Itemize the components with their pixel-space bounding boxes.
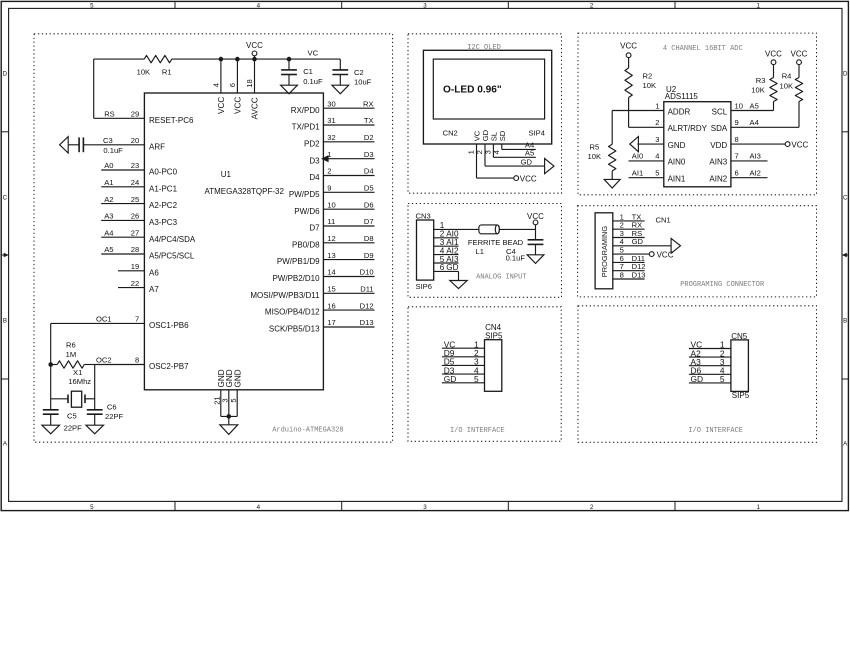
U2 pin 2 ALRT/RDY — [655, 118, 707, 133]
svg-text:AIN1: AIN1 — [668, 175, 686, 184]
svg-text:A4/PC4/SDA: A4/PC4/SDA — [149, 235, 196, 244]
VCC symbol above R4 — [791, 50, 808, 65]
svg-text:D6: D6 — [364, 200, 374, 209]
U1 pin 10 PW/D6 — [294, 200, 374, 215]
svg-text:OC2: OC2 — [96, 356, 112, 365]
svg-text:ADS1115: ADS1115 — [665, 92, 699, 101]
CN3 pin 1 — [434, 221, 479, 230]
svg-text:0.1uF: 0.1uF — [506, 253, 526, 262]
svg-text:PD2: PD2 — [304, 139, 320, 148]
svg-text:O-LED 0.96": O-LED 0.96" — [443, 85, 502, 96]
CN4 pin 2 D9 — [442, 348, 485, 358]
U1 pin 25 A2-PC2 — [101, 195, 177, 210]
svg-text:1M: 1M — [66, 350, 77, 359]
ground below C2 — [332, 85, 349, 94]
U1 pin 13 PW/PB1/D9 — [277, 251, 375, 266]
svg-text:Arduino-ATMEGA328: Arduino-ATMEGA328 — [272, 426, 343, 434]
wire R2 to U2 ALRT/RDY — [629, 98, 664, 128]
svg-text:PROGRAMING CONNECTOR: PROGRAMING CONNECTOR — [680, 281, 765, 289]
wire node AI2 — [731, 169, 768, 178]
svg-text:PW/PB1/D9: PW/PB1/D9 — [277, 257, 320, 266]
svg-text:OSC2-PB7: OSC2-PB7 — [149, 362, 189, 371]
connector CN4 SIP5 body — [485, 323, 503, 392]
wire pin stubs VCC — [221, 56, 255, 93]
svg-text:VCC: VCC — [765, 50, 782, 59]
svg-text:24: 24 — [131, 178, 139, 187]
wire L1 to VCC/C4 — [500, 225, 536, 240]
svg-text:R3: R3 — [756, 76, 766, 85]
svg-text:2: 2 — [655, 118, 659, 127]
svg-text:RS: RS — [104, 110, 115, 119]
svg-text:C2: C2 — [354, 68, 364, 77]
svg-text:ATMEGA328TQPF-32: ATMEGA328TQPF-32 — [205, 187, 285, 196]
U2 pin 8 VDD — [710, 135, 738, 150]
ground below C6 — [86, 425, 104, 434]
svg-text:4: 4 — [211, 83, 220, 87]
svg-text:MOSI/PW/PB3/D11: MOSI/PW/PB3/D11 — [250, 291, 320, 300]
resistor R5 10K — [588, 143, 616, 180]
OLED display CN2 body — [423, 50, 551, 144]
svg-text:C6: C6 — [107, 403, 117, 412]
svg-text:A2-PC2: A2-PC2 — [149, 201, 178, 210]
svg-text:TX: TX — [364, 116, 374, 125]
U2 pin 5 AIN1 — [655, 169, 686, 184]
svg-text:A4: A4 — [104, 228, 113, 237]
svg-text:VC: VC — [308, 48, 319, 57]
svg-text:ANALOG INPUT: ANALOG INPUT — [476, 274, 526, 282]
svg-text:10: 10 — [735, 101, 743, 110]
svg-text:D4: D4 — [364, 167, 374, 176]
ground right of CN1 pin4 — [671, 238, 680, 253]
svg-text:U1: U1 — [221, 170, 232, 179]
svg-text:8: 8 — [135, 356, 139, 365]
svg-text:R4: R4 — [782, 72, 792, 81]
CN3 pin 2 — [434, 230, 459, 239]
U1 pin 23 A0-PC0 — [101, 161, 177, 176]
svg-text:I/O INTERFACE: I/O INTERFACE — [688, 427, 743, 435]
svg-text:SIP4: SIP4 — [529, 128, 545, 137]
svg-text:VCC: VCC — [791, 140, 808, 149]
svg-text:3: 3 — [423, 504, 427, 511]
wire U2 ADDR to R5 — [612, 111, 664, 145]
svg-text:VCC: VCC — [246, 41, 263, 50]
ground below C4 — [527, 255, 544, 264]
svg-text:28: 28 — [131, 245, 139, 254]
ground right of CN2 pin2 — [545, 159, 554, 174]
capacitor C5 22PF — [43, 410, 82, 433]
svg-text:D11: D11 — [360, 285, 373, 294]
wire CN2 pin1 to VCC — [477, 144, 515, 178]
svg-text:I/O INTERFACE: I/O INTERFACE — [450, 427, 505, 435]
svg-text:16: 16 — [327, 301, 335, 310]
wire node AI3 — [731, 152, 768, 161]
analog input section box — [408, 204, 562, 298]
U1 pin 16 MISO/PB4/D12 — [265, 301, 375, 316]
svg-text:R1: R1 — [162, 68, 172, 77]
svg-text:16Mhz: 16Mhz — [68, 377, 91, 386]
svg-text:AVCC: AVCC — [251, 97, 260, 119]
svg-text:RESET-PC6: RESET-PC6 — [149, 116, 194, 125]
svg-text:CN1: CN1 — [656, 216, 671, 225]
svg-text:3: 3 — [423, 3, 427, 10]
resistor R2 10K — [625, 57, 656, 97]
capacitor C6 22PF — [87, 403, 124, 426]
svg-text:GD: GD — [444, 374, 457, 384]
ground left of U2 pin 3 — [630, 137, 639, 152]
U1 pin 29 RESET-PC6 — [94, 110, 194, 125]
U2 pin 3 GND — [655, 135, 685, 150]
svg-text:VCC: VCC — [620, 41, 637, 50]
svg-text:D7: D7 — [364, 217, 374, 226]
U2 pin 7 AIN3 — [709, 152, 738, 167]
svg-text:4: 4 — [257, 504, 261, 511]
svg-text:1: 1 — [756, 504, 760, 511]
svg-text:22PF: 22PF — [64, 424, 83, 433]
svg-text:C: C — [843, 194, 848, 201]
VCC symbol at U2 VDD — [785, 140, 808, 149]
U1 pin 11 D7 — [309, 217, 374, 232]
wire SDA to R4 node A4 — [731, 118, 799, 127]
CN3 pin 5 — [434, 255, 459, 264]
CN5 pin 1 VC — [689, 340, 731, 350]
svg-text:VCC: VCC — [527, 212, 544, 221]
svg-text:19: 19 — [131, 262, 139, 271]
U1 pin 24 A1-PC1 — [101, 178, 177, 193]
svg-text:SIP5: SIP5 — [732, 391, 750, 400]
connector CN3 SIP6 body — [416, 212, 434, 291]
svg-text:GND: GND — [233, 369, 242, 387]
svg-text:5: 5 — [90, 3, 94, 10]
U1 pin 7 OSC1-PB6 — [51, 315, 189, 330]
wire CN2 pin3 to node A5 — [493, 144, 535, 158]
svg-text:20: 20 — [131, 136, 139, 145]
svg-text:AIN3: AIN3 — [709, 158, 727, 167]
svg-text:GND: GND — [668, 141, 686, 150]
svg-text:3: 3 — [655, 135, 659, 144]
U2 pin 3 GND wire — [637, 143, 663, 145]
svg-text:A0: A0 — [104, 161, 113, 170]
connector CN1 body — [595, 213, 671, 289]
svg-text:10: 10 — [327, 200, 335, 209]
wire VCC rail — [94, 59, 341, 118]
CN4 pin 1 VC — [442, 339, 485, 349]
CN2 pin numbers 1 2 3 4 — [467, 150, 501, 154]
svg-text:10K: 10K — [588, 152, 602, 161]
svg-text:0.1uF: 0.1uF — [103, 146, 123, 155]
svg-text:PB0/D8: PB0/D8 — [292, 240, 320, 249]
svg-text:5: 5 — [90, 504, 94, 511]
svg-text:GD: GD — [521, 157, 533, 166]
svg-text:D: D — [843, 70, 848, 77]
CN5 pin 5 GD — [689, 374, 731, 384]
svg-text:23: 23 — [131, 161, 139, 170]
svg-text:8: 8 — [735, 135, 739, 144]
svg-text:R5: R5 — [590, 143, 600, 152]
svg-text:6: 6 — [228, 83, 237, 87]
U2 pin 6 AIN2 — [709, 169, 738, 184]
VCC power symbol — [246, 41, 263, 56]
svg-text:7: 7 — [735, 152, 739, 161]
wire SCL to R3 node A5 — [731, 101, 774, 110]
U2 pin 1 ADDR — [655, 101, 690, 116]
I/O interface section box CN5 — [578, 306, 817, 443]
svg-text:A7: A7 — [149, 285, 159, 294]
svg-text:VCC: VCC — [657, 250, 674, 259]
svg-text:2: 2 — [327, 167, 331, 176]
U1 GND pins 21 3 5 — [213, 369, 243, 416]
svg-text:D5: D5 — [364, 184, 374, 193]
U1 pin 2 D4 — [309, 167, 374, 182]
CN1 pin 1 — [613, 212, 645, 221]
U1 pin 15 MOSI/PW/PB3/D11 — [250, 285, 374, 300]
svg-text:27: 27 — [131, 228, 139, 237]
wire CN2 pin2 to ground — [485, 144, 545, 166]
svg-text:0.1uF: 0.1uF — [303, 77, 323, 86]
VCC symbol above R2 — [620, 41, 637, 57]
wire CN2 pin4 to node A4 — [502, 141, 536, 150]
svg-text:9: 9 — [327, 184, 331, 193]
junction dots on VCC rail — [219, 57, 292, 62]
svg-text:PROGRAMING: PROGRAMING — [600, 226, 609, 278]
resistor R1 10K — [137, 55, 172, 76]
svg-text:CN5: CN5 — [731, 332, 748, 341]
U2 pin 10 SCL — [712, 101, 743, 116]
programming connector section box — [578, 206, 817, 297]
wire node AI1 — [629, 169, 664, 178]
U1 pin 28 A5/PC5/SCL — [101, 245, 195, 260]
wire CN3 pin6 to ground — [458, 271, 460, 280]
svg-text:1: 1 — [756, 3, 760, 10]
svg-text:R2: R2 — [643, 71, 653, 80]
svg-text:10K: 10K — [751, 85, 765, 94]
CN1 pin 5 — [613, 246, 650, 255]
svg-text:A5: A5 — [525, 149, 534, 158]
CN5 pin 4 D6 — [689, 366, 731, 376]
svg-text:18: 18 — [245, 79, 254, 87]
VCC symbol above R3 — [765, 50, 782, 65]
svg-text:R6: R6 — [66, 341, 76, 350]
svg-text:AI0: AI0 — [632, 152, 643, 161]
svg-text:D8: D8 — [364, 234, 374, 243]
svg-text:31: 31 — [327, 116, 335, 125]
svg-text:D3: D3 — [309, 156, 320, 165]
capacitor C3 0.1uF on ARF — [68, 136, 123, 155]
svg-text:12: 12 — [327, 234, 335, 243]
crystal X1 16Mhz — [51, 368, 95, 407]
capacitor C1 0.1uF — [281, 59, 323, 86]
svg-text:A1-PC1: A1-PC1 — [149, 184, 178, 193]
svg-text:X1: X1 — [73, 368, 82, 377]
U1 pin 22 A7 — [118, 279, 159, 294]
U1 pin 17 SCK/PB5/D13 — [269, 318, 375, 333]
CN1 pin 4 — [613, 237, 671, 246]
U1 pin 1 D3 — [309, 150, 374, 165]
svg-text:SD: SD — [498, 130, 507, 141]
svg-text:PW/D6: PW/D6 — [294, 207, 320, 216]
svg-text:9: 9 — [735, 118, 739, 127]
svg-text:B: B — [3, 317, 7, 324]
svg-text:AI2: AI2 — [750, 169, 761, 178]
node VC — [308, 48, 319, 57]
svg-text:B: B — [843, 317, 847, 324]
CN3 pin 6 — [434, 263, 459, 272]
svg-text:SCK/PB5/D13: SCK/PB5/D13 — [269, 325, 320, 334]
svg-text:6: 6 — [440, 263, 445, 272]
I2C OLED section box — [408, 34, 562, 193]
CN1 pin 8 — [613, 270, 646, 279]
svg-text:D13: D13 — [632, 270, 646, 279]
svg-text:6: 6 — [735, 169, 739, 178]
ground below U1 — [220, 416, 238, 434]
U1 pin 14 PW/PB2/D10 — [272, 268, 374, 283]
svg-text:D: D — [3, 70, 8, 77]
U1 power pin labels VCC VCC AVCC — [217, 97, 260, 120]
svg-text:D9: D9 — [364, 251, 374, 260]
resistor R3 10K — [751, 64, 777, 110]
resistor R6 1M — [51, 341, 95, 369]
U1 pin 31 TX/PD1 — [292, 116, 375, 131]
svg-text:CN3: CN3 — [416, 212, 431, 221]
4 channel ADC section box — [578, 33, 817, 195]
svg-text:PW/PB2/D10: PW/PB2/D10 — [272, 274, 320, 283]
wire node AI0 — [629, 152, 664, 161]
svg-text:OC1: OC1 — [96, 315, 112, 324]
U2 pin 4 AIN0 — [655, 152, 686, 167]
wire VDD to VCC — [731, 143, 785, 145]
CN4 pin 3 D5 — [442, 357, 485, 367]
svg-text:D3: D3 — [364, 150, 374, 159]
svg-text:25: 25 — [131, 195, 139, 204]
junction dot OC1/R6 — [48, 362, 53, 367]
svg-text:4: 4 — [655, 152, 659, 161]
wire OC2 net — [94, 365, 96, 410]
svg-text:VCC: VCC — [791, 50, 808, 59]
svg-text:ARF: ARF — [149, 142, 165, 151]
CN3 pin 3 — [434, 238, 459, 247]
resistor R4 10K — [780, 64, 803, 127]
svg-text:C3: C3 — [103, 136, 113, 145]
U1 pin 20 ARF — [83, 136, 165, 151]
op-amp U2 ADS1115 body — [664, 85, 731, 187]
svg-text:AIN2: AIN2 — [709, 175, 727, 184]
svg-text:4 CHANNEL 16BIT ADC: 4 CHANNEL 16BIT ADC — [663, 45, 743, 53]
VCC symbol above C4 — [527, 212, 544, 225]
svg-text:29: 29 — [131, 110, 139, 119]
svg-text:RX/PD0: RX/PD0 — [291, 106, 320, 115]
capacitor C4 0.1uF — [506, 240, 544, 263]
svg-text:D12: D12 — [360, 301, 374, 310]
CN1 pin 2 — [613, 221, 645, 230]
U1 pin 12 PB0/D8 — [292, 234, 374, 249]
svg-text:L1: L1 — [475, 247, 483, 256]
svg-text:7: 7 — [135, 315, 139, 324]
junction dot GND — [227, 414, 232, 419]
svg-text:AI3: AI3 — [750, 152, 761, 161]
capacitor C2 10uF — [332, 59, 371, 86]
CN2 pin labels VC GD SL SD — [473, 129, 507, 141]
svg-text:2: 2 — [590, 3, 594, 10]
wire OC1 net — [50, 323, 52, 409]
svg-text:VCC: VCC — [520, 174, 537, 183]
ground left of C3 — [60, 137, 69, 153]
svg-text:8: 8 — [620, 270, 624, 279]
svg-text:I2C OLED: I2C OLED — [467, 44, 501, 52]
I/O interface section box CN4 — [408, 307, 561, 442]
svg-text:30: 30 — [327, 99, 335, 108]
svg-text:A5: A5 — [104, 245, 113, 254]
svg-text:SIP6: SIP6 — [416, 282, 432, 291]
CN5 pin 3 A3 — [689, 357, 731, 367]
svg-text:5: 5 — [655, 169, 659, 178]
svg-text:A6: A6 — [149, 268, 159, 277]
op-amp U1 ATMEGA328TQPF-32 body — [144, 93, 323, 390]
svg-text:A3: A3 — [104, 212, 113, 221]
U1 pin 9 PW/PD5 — [289, 184, 375, 199]
svg-text:SIP5: SIP5 — [485, 331, 503, 340]
svg-text:C5: C5 — [67, 412, 77, 421]
svg-text:A3-PC3: A3-PC3 — [149, 218, 178, 227]
U1 pin 19 A6 — [118, 262, 159, 277]
svg-text:GD: GD — [446, 263, 458, 272]
U1 pin 8 OSC2-PB7 — [95, 356, 189, 371]
svg-text:CN2: CN2 — [443, 128, 458, 137]
svg-text:10K: 10K — [643, 81, 657, 90]
svg-text:1: 1 — [655, 101, 659, 110]
svg-text:VCC: VCC — [217, 97, 226, 114]
svg-text:5: 5 — [720, 374, 725, 384]
svg-text:10uF: 10uF — [354, 77, 372, 86]
CN1 pin 3 — [613, 229, 645, 238]
svg-text:VDD: VDD — [710, 141, 727, 150]
svg-text:14: 14 — [327, 268, 335, 277]
CN5 pin 2 A2 — [689, 348, 731, 358]
svg-text:PW/PD5: PW/PD5 — [289, 190, 320, 199]
svg-text:A4: A4 — [750, 118, 759, 127]
svg-text:GD: GD — [691, 374, 704, 384]
U1 pin 32 PD2 — [304, 133, 374, 148]
svg-text:5: 5 — [474, 374, 479, 384]
svg-text:ALRT/RDY: ALRT/RDY — [668, 124, 708, 133]
svg-text:AI1: AI1 — [632, 169, 643, 178]
svg-text:15: 15 — [327, 285, 335, 294]
ground below R5 — [604, 179, 620, 188]
svg-text:SDA: SDA — [711, 124, 728, 133]
svg-text:17: 17 — [327, 318, 335, 327]
connector CN5 SIP5 body — [731, 332, 750, 400]
svg-text:2: 2 — [590, 504, 594, 511]
VCC symbol at CN1 pin5 — [649, 250, 673, 259]
svg-text:TX/PD1: TX/PD1 — [292, 123, 321, 132]
svg-text:10K: 10K — [780, 81, 794, 90]
svg-text:D7: D7 — [309, 224, 320, 233]
ground below C1 — [281, 85, 298, 94]
CN4 pin 5 GD — [442, 374, 485, 384]
U2 pin 9 SDA — [711, 118, 739, 133]
svg-text:10K: 10K — [137, 68, 151, 77]
U1 power pin numbers 4 6 18 — [211, 79, 254, 87]
ground below CN3 pin6 — [450, 281, 467, 289]
svg-text:C: C — [3, 194, 8, 201]
svg-text:RX: RX — [363, 99, 374, 108]
svg-text:5: 5 — [229, 398, 238, 402]
CN3 pin 4 — [434, 246, 459, 255]
svg-text:ADDR: ADDR — [668, 107, 691, 116]
svg-text:A5/PC5/SCL: A5/PC5/SCL — [149, 252, 195, 261]
svg-text:32: 32 — [327, 133, 335, 142]
svg-text:GD: GD — [632, 237, 644, 246]
U1 pin 30 RX/PD0 — [291, 99, 375, 114]
ground below C5 — [42, 425, 60, 434]
